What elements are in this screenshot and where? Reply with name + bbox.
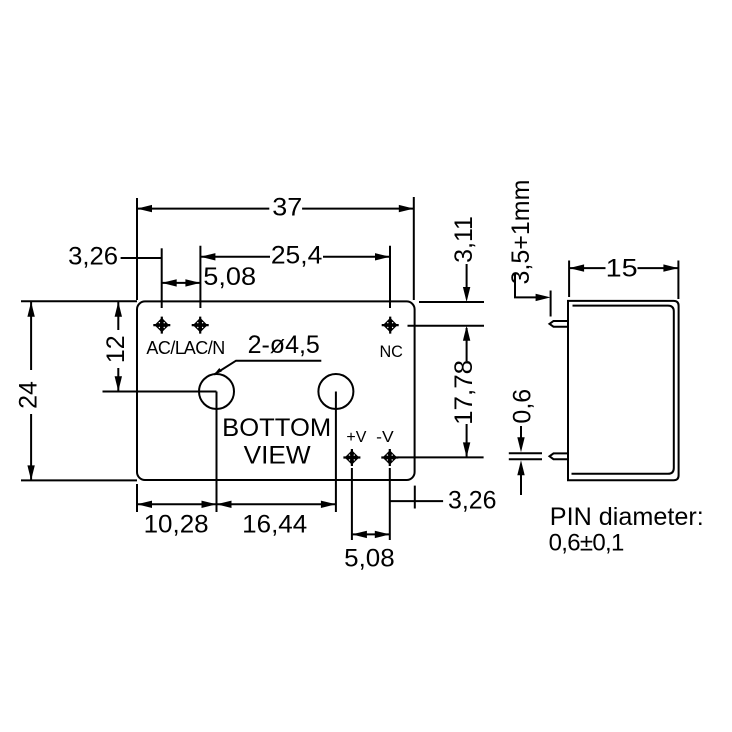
svg-text:3,5+1mm: 3,5+1mm (507, 180, 535, 285)
svg-text:24: 24 (14, 381, 42, 409)
svg-text:3,26: 3,26 (68, 243, 118, 271)
side view case outline (568, 301, 679, 480)
svg-text:17,78: 17,78 (450, 360, 478, 425)
pin AC/N (192, 317, 209, 334)
svg-text:BOTTOM: BOTTOM (222, 414, 331, 442)
dim 5,08 top line (162, 282, 201, 284)
dim 12 bottom extension line to hole center (103, 391, 217, 393)
svg-text:3,26: 3,26 (448, 487, 497, 515)
svg-text:5,08: 5,08 (344, 545, 395, 573)
svg-text:0,6±0,1: 0,6±0,1 (549, 529, 624, 556)
pin NC (382, 317, 399, 334)
side view bottom pin (550, 453, 569, 459)
dim 0,6 extension lines (509, 453, 542, 459)
mounting hole left 2-&#248;4,5 (199, 374, 234, 409)
dim 3,11 line (466, 264, 468, 290)
dim 3,26 top-left line (121, 257, 162, 259)
dim 24 line (30, 302, 32, 480)
dim 37 line (137, 208, 414, 210)
svg-text:-V: -V (376, 429, 394, 446)
pin +V (343, 449, 360, 466)
dim 5,08 top extension line (161, 248, 163, 308)
svg-text:PIN diameter:: PIN diameter: (550, 503, 704, 531)
svg-text:10,28: 10,28 (144, 511, 209, 539)
svg-text:15: 15 (606, 255, 638, 283)
svg-text:16,44: 16,44 (242, 511, 307, 539)
dim 3,26 bottom-right tick (414, 486, 416, 509)
dim 37 extension lines (136, 198, 138, 300)
svg-text:3,11: 3,11 (450, 216, 478, 263)
svg-text:VIEW: VIEW (244, 442, 311, 470)
dim 25,4 line (200, 256, 390, 258)
dim 3,5+1mm leader (515, 273, 538, 298)
dim 17,78 extension line (398, 456, 484, 458)
dim 12 top extension line (21, 300, 137, 302)
side view inner wall line (572, 306, 674, 474)
dim 5,08 bottom line (352, 533, 390, 535)
dim 0,6 line and arrows (520, 426, 522, 440)
svg-text:0,6: 0,6 (509, 389, 537, 424)
dim 16,44 extension line (335, 392, 337, 513)
module body outline (bottom view) (137, 301, 415, 480)
svg-text:AC/N: AC/N (184, 338, 225, 358)
svg-text:5,08: 5,08 (203, 263, 256, 291)
dim 10,28 line (137, 503, 217, 505)
dim 15 extension lines (569, 261, 678, 300)
dim 12 line (117, 302, 119, 392)
svg-text:NC: NC (379, 343, 403, 361)
dim 5,08 bottom extension lines (352, 468, 390, 540)
pin -V (381, 449, 398, 466)
dim 10,28 extension lines (136, 484, 138, 512)
svg-text:37: 37 (272, 194, 302, 222)
side view top pin (550, 321, 569, 327)
svg-text:12: 12 (102, 335, 130, 363)
dim 24 bottom extension line (21, 479, 137, 481)
svg-text:AC/L: AC/L (146, 338, 185, 358)
dim 3,26 bottom-right line (390, 500, 443, 502)
dim 3,5+1mm tick at pin tip (550, 291, 552, 317)
svg-text:2-ø4,5: 2-ø4,5 (248, 331, 320, 359)
dim 15 line (569, 267, 678, 269)
dim 17,78 line (466, 328, 468, 457)
svg-text:25,4: 25,4 (271, 242, 323, 270)
mounting hole right 2-&#248;4,5 (318, 374, 353, 409)
dim 3,11 extension lines (419, 301, 484, 303)
dim 25,4 extension lines (200, 246, 390, 308)
dim 16,44 line (217, 503, 336, 505)
svg-text:+V: +V (346, 429, 366, 446)
pin AC/L (153, 317, 170, 334)
